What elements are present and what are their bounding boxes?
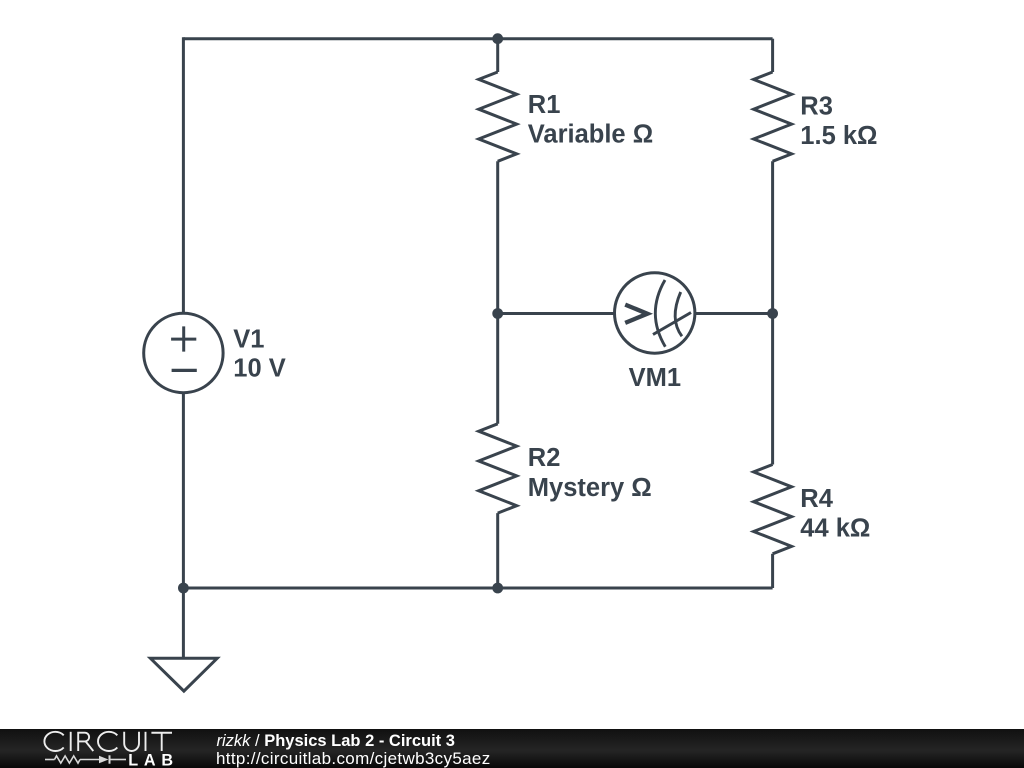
VM1 greater-than glyph — [625, 305, 647, 323]
VM1 scale arc inner — [675, 292, 682, 336]
logo resistor — [55, 756, 81, 763]
wire mid horizontal right of voltmeter — [695, 312, 773, 315]
voltmeter VM1 — [615, 273, 695, 353]
wire left vertical (bottom) — [182, 393, 185, 588]
svg-text:44 kΩ: 44 kΩ — [800, 515, 870, 543]
node top junction — [492, 33, 503, 44]
svg-text:R2: R2 — [528, 444, 561, 472]
logo CIRCUIT lettering — [44, 732, 172, 751]
svg-text:LAB: LAB — [128, 752, 173, 768]
logo wire mid — [80, 759, 99, 761]
node mid-right junction — [767, 308, 778, 319]
svg-text:10 V: 10 V — [233, 355, 285, 383]
node bottom-mid junction — [492, 583, 503, 594]
wire left vertical (top) — [182, 37, 185, 313]
wire bottom horizontal — [183, 587, 772, 590]
node bottom-left junction — [178, 583, 189, 594]
wire mid horizontal left of voltmeter — [498, 312, 615, 315]
wire R3 to mid-right junction — [771, 161, 774, 313]
banner title — [217, 732, 455, 750]
wire ground lead — [182, 588, 185, 658]
V1 plus sign — [171, 326, 196, 351]
wire right vertical top lead — [771, 39, 774, 72]
svg-text:VM1: VM1 — [629, 364, 681, 392]
V1 minus sign — [172, 369, 197, 372]
VM1 scale arc outer — [655, 280, 665, 347]
svg-text:1.5 kΩ: 1.5 kΩ — [800, 122, 877, 150]
wire R1 to mid junction — [496, 161, 499, 313]
svg-text:Mystery Ω: Mystery Ω — [528, 474, 652, 502]
svg-text:R4: R4 — [800, 485, 833, 513]
banner bar — [0, 729, 1024, 768]
svg-text:Variable Ω: Variable Ω — [528, 121, 653, 149]
svg-text:V1: V1 — [233, 325, 264, 353]
VM1 needle — [653, 313, 691, 335]
wire R4 to bottom right corner — [771, 554, 774, 588]
resistor R3 — [754, 72, 792, 161]
logo diode — [99, 756, 109, 764]
wire R2 to bottom junction — [496, 513, 499, 588]
wire mid junction to R2 — [496, 314, 499, 424]
logo wire right — [111, 759, 127, 761]
resistor R2 — [479, 424, 517, 513]
wire middle column top lead — [496, 39, 499, 72]
resistor R1 — [479, 72, 517, 161]
svg-text:R1: R1 — [528, 91, 561, 119]
svg-text:R3: R3 — [800, 93, 833, 121]
wire mid-right junction to R4 — [771, 314, 774, 465]
banner url — [216, 750, 491, 768]
voltage source V1 — [144, 313, 223, 392]
wire top horizontal — [183, 37, 772, 40]
node mid-left junction — [492, 308, 503, 319]
ground — [150, 658, 217, 691]
logo wire left — [45, 759, 55, 761]
resistor R4 — [754, 465, 792, 554]
